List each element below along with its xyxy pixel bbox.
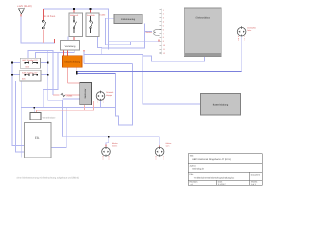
svg-text:+12V (KL30): +12V (KL30) <box>17 5 32 8</box>
svg-text:ohne Direktsteuerung mit Beleu: ohne Direktsteuerung mit Beleuchtung auf… <box>17 177 80 180</box>
svg-text:EB.: EB. <box>35 136 40 140</box>
svg-text:B05: B05 <box>22 78 25 81</box>
svg-text:Elektronikbox: Elektronikbox <box>196 16 211 19</box>
svg-text:meinolog.de: meinolog.de <box>192 168 205 171</box>
svg-text:Drosselkl.: Drosselkl. <box>247 27 256 30</box>
svg-text:ABC Elektronik Dingsbums 4T (E: ABC Elektronik Dingsbums 4T (EVL) <box>192 158 231 161</box>
svg-text:Stecker: Stecker <box>145 31 152 34</box>
svg-text:File:: File: <box>190 173 194 176</box>
svg-text:Verteilerdose: Verteilerdose <box>43 116 57 119</box>
svg-text:Elektrotuning: Elektrotuning <box>121 18 136 21</box>
svg-text:Drossel-: Drossel- <box>106 91 114 94</box>
svg-text:Author:: Author: <box>190 165 197 168</box>
svg-text:7 ElektrischeGetriebeSchrupsch: 7 ElektrischeGetriebeSchrupschaltung.fzz <box>194 177 235 180</box>
svg-text:Verteilung: Verteilung <box>65 45 76 48</box>
svg-text:1 of 1: 1 of 1 <box>251 183 257 186</box>
svg-text:klappe: klappe <box>106 94 113 97</box>
svg-text:Title:: Title: <box>190 155 195 158</box>
svg-text:hinten: hinten <box>112 145 117 148</box>
svg-text:Document: Document <box>251 174 261 177</box>
svg-text:Abblendl.: Abblendl. <box>70 14 79 17</box>
svg-text:ABC Zündsp.12V: ABC Zündsp.12V <box>22 59 38 62</box>
svg-text:3.1.2017: 3.1.2017 <box>218 183 227 186</box>
svg-text:B05: B05 <box>26 65 29 68</box>
svg-text:Zündk.: Zündk. <box>67 94 74 97</box>
svg-text:KL15 Zünd.: KL15 Zünd. <box>44 15 56 18</box>
svg-text:Batterieladung: Batterieladung <box>213 104 229 107</box>
svg-text:heiz.: heiz. <box>247 29 252 32</box>
svg-text:Fernlicht: Fernlicht <box>87 14 95 17</box>
svg-text:Umpolschaltung: Umpolschaltung <box>64 61 80 64</box>
svg-text:KL58b: KL58b <box>100 14 107 17</box>
svg-text:vorn: vorn <box>166 144 170 147</box>
svg-text:KAB Zündsp.12V: KAB Zündsp.12V <box>22 71 38 74</box>
svg-text:Stellmotor: Stellmotor <box>84 88 87 98</box>
